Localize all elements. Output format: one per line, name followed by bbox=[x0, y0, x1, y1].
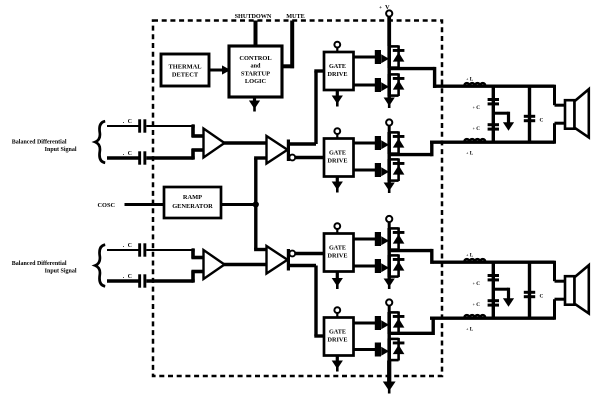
svg-text:CONTROL: CONTROL bbox=[239, 55, 271, 62]
svg-text:C: C bbox=[540, 294, 544, 300]
svg-text:Input Signal: Input Signal bbox=[45, 268, 77, 274]
svg-text:C: C bbox=[128, 119, 132, 125]
svg-text:C: C bbox=[540, 118, 544, 124]
svg-text:RAMP: RAMP bbox=[183, 194, 202, 201]
svg-text:DRIVE: DRIVE bbox=[328, 71, 348, 78]
svg-text:C: C bbox=[128, 243, 132, 249]
svg-text:Balanced Differential: Balanced Differential bbox=[12, 140, 67, 146]
svg-text:COSC: COSC bbox=[98, 202, 116, 209]
svg-text:Balanced Differential: Balanced Differential bbox=[12, 261, 67, 267]
svg-text:C: C bbox=[128, 274, 132, 280]
svg-text:GENERATOR: GENERATOR bbox=[172, 203, 213, 210]
svg-text:MUTE: MUTE bbox=[286, 13, 305, 20]
svg-text:GATE: GATE bbox=[329, 244, 346, 251]
svg-text:GATE: GATE bbox=[329, 63, 346, 70]
svg-text:and: and bbox=[251, 63, 262, 70]
svg-text:C: C bbox=[128, 151, 132, 157]
svg-text:SHUTDOWN: SHUTDOWN bbox=[235, 13, 272, 20]
svg-text:STARTUP: STARTUP bbox=[241, 70, 270, 77]
svg-text:DRIVE: DRIVE bbox=[328, 252, 348, 259]
svg-text:LOGIC: LOGIC bbox=[245, 78, 267, 85]
svg-text:+: + bbox=[379, 6, 382, 11]
svg-text:DETECT: DETECT bbox=[172, 72, 199, 79]
svg-text:DRIVE: DRIVE bbox=[328, 336, 348, 343]
svg-text:THERMAL: THERMAL bbox=[168, 63, 201, 70]
svg-text:Input Signal: Input Signal bbox=[45, 147, 77, 153]
svg-text:GATE: GATE bbox=[329, 328, 346, 335]
svg-text:GATE: GATE bbox=[329, 149, 346, 156]
svg-text:DRIVE: DRIVE bbox=[328, 157, 348, 164]
